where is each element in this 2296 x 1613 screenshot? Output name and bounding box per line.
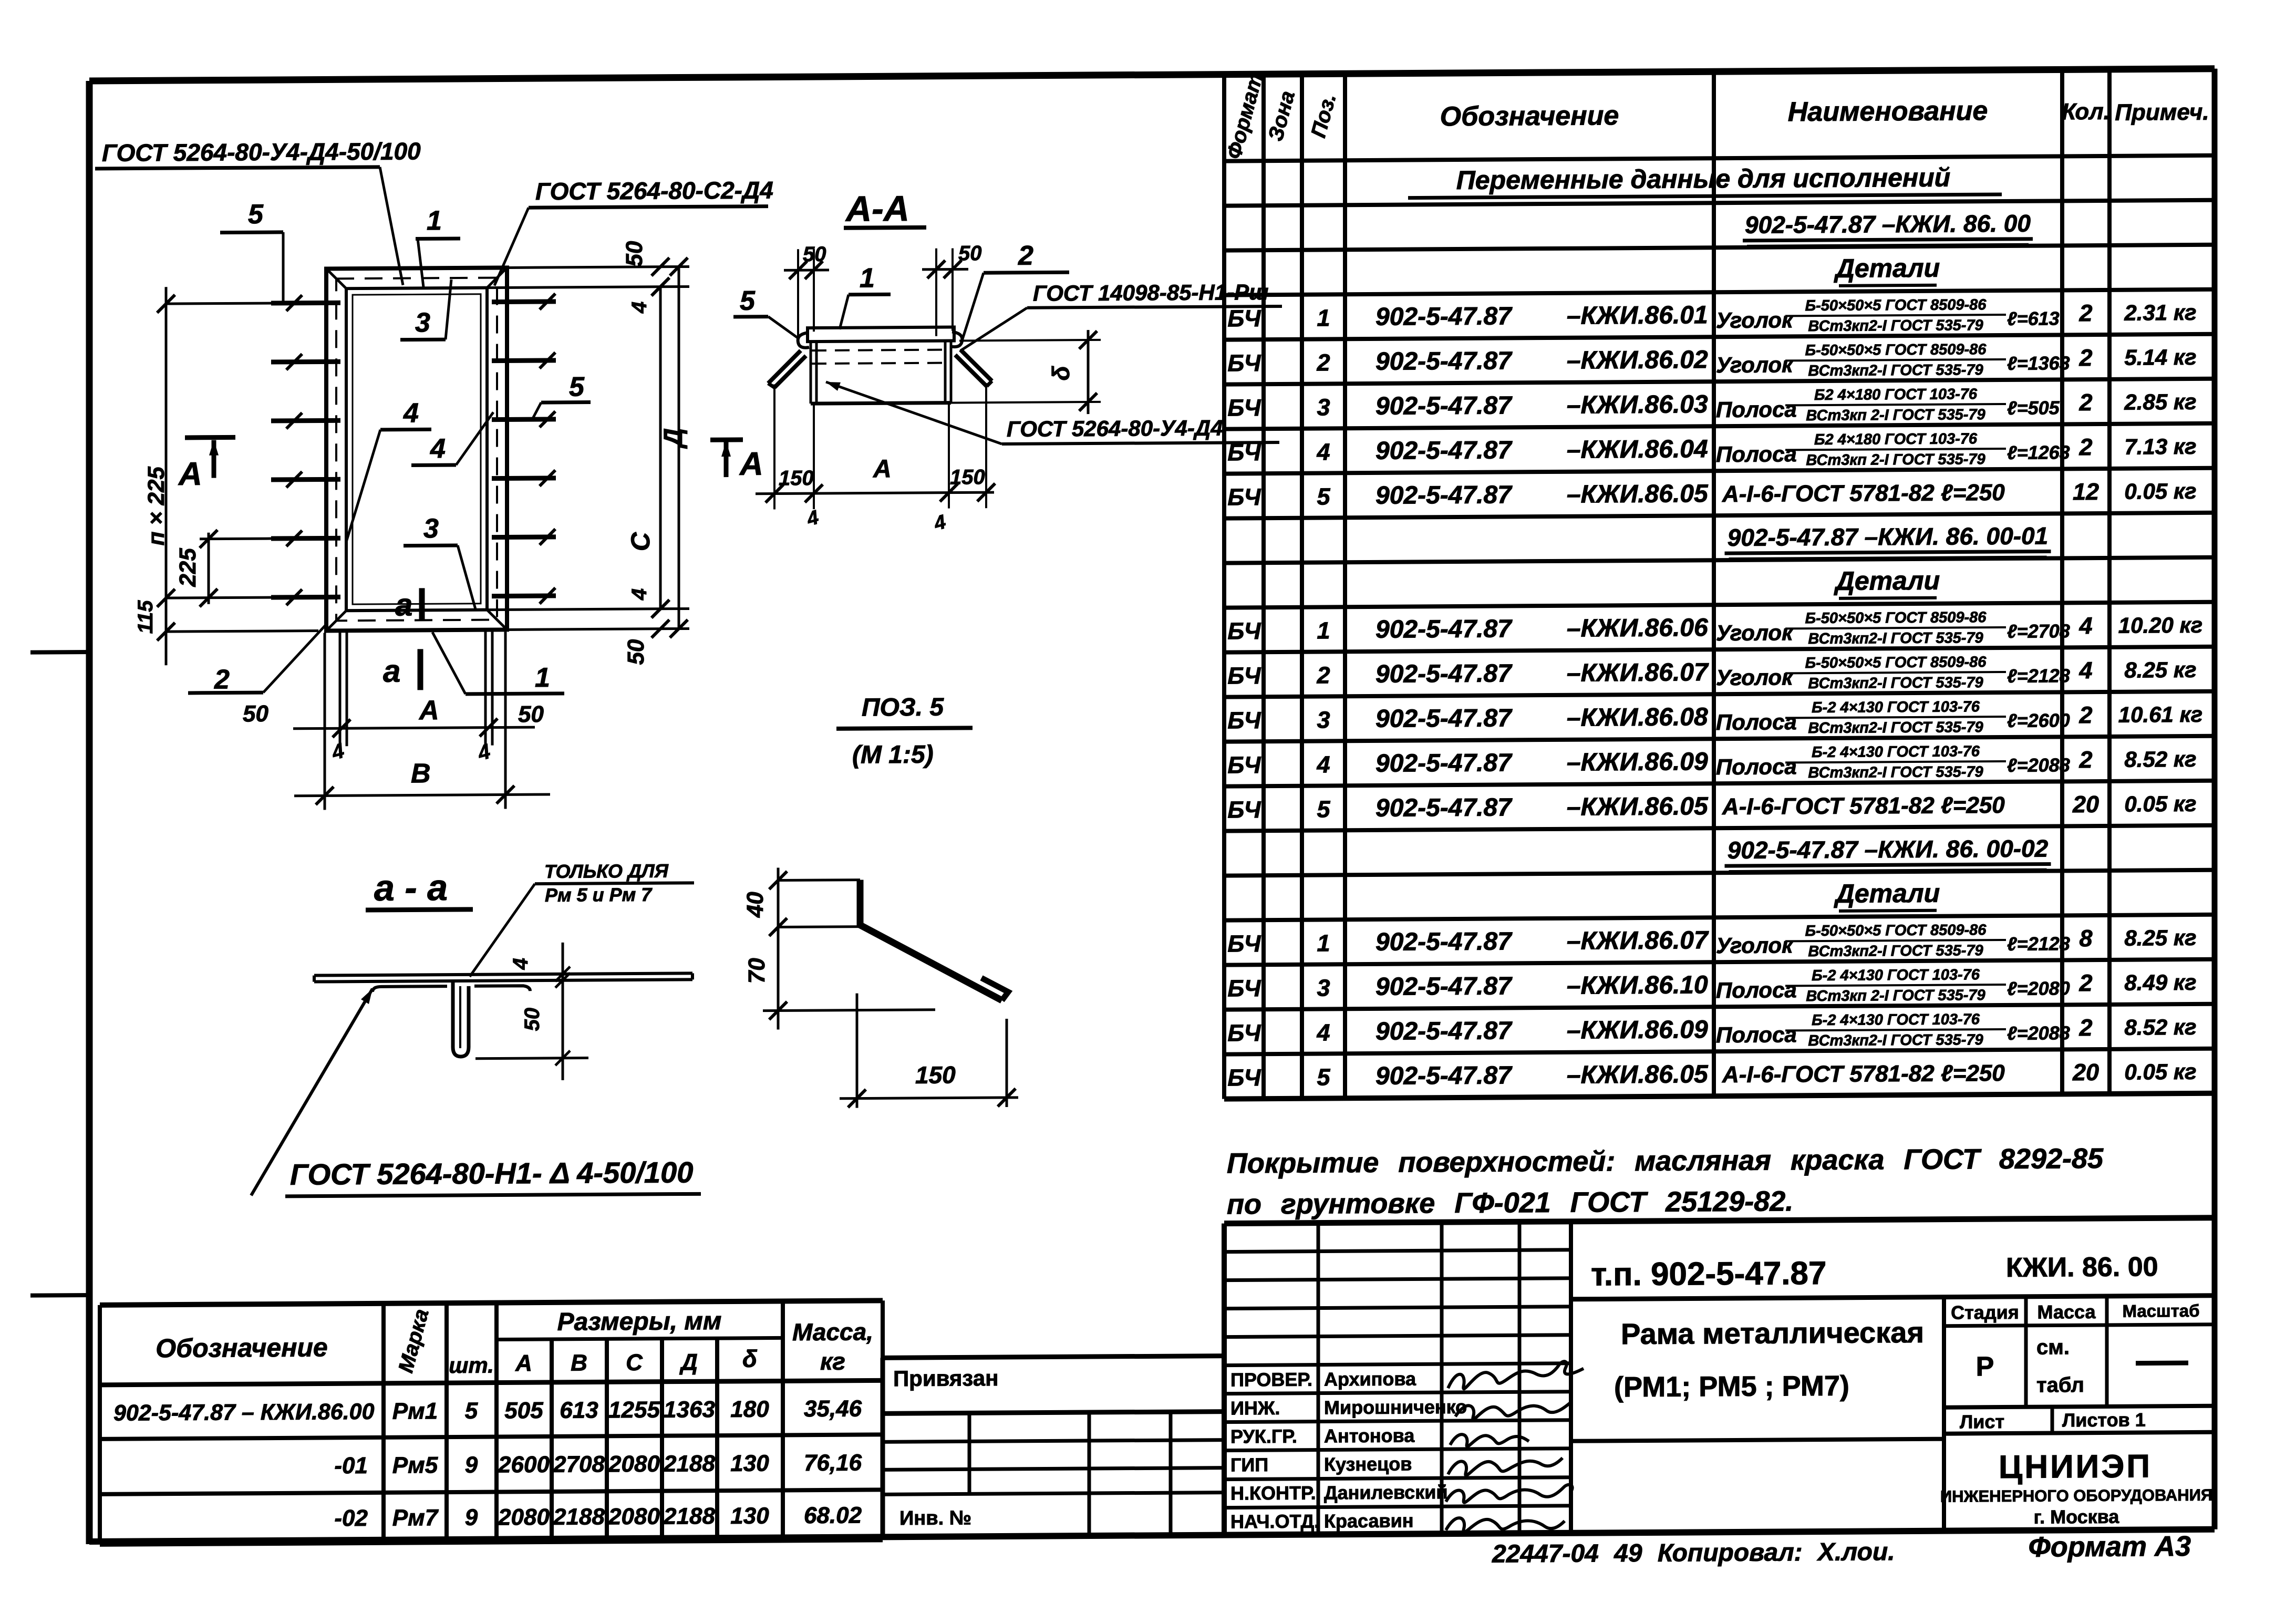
svg-text:–КЖИ.86.07: –КЖИ.86.07 [1567, 658, 1709, 687]
svg-text:115: 115 [134, 600, 157, 634]
svg-text:2188: 2188 [553, 1504, 605, 1530]
title block outer [1224, 1218, 2215, 1224]
svg-text:8.49 кг: 8.49 кг [2124, 970, 2196, 995]
svg-text:4: 4 [2078, 657, 2092, 684]
sheet border frame [89, 69, 2215, 81]
svg-text:225: 225 [175, 548, 201, 587]
svg-text:Наименование: Наименование [1788, 96, 1988, 127]
svg-text:Б2 4×180 ГОСТ 103-76: Б2 4×180 ГОСТ 103-76 [1814, 386, 1978, 404]
svg-text:35,46: 35,46 [804, 1396, 862, 1422]
svg-text:10.61 кг: 10.61 кг [2118, 702, 2202, 727]
svg-text:20: 20 [2072, 791, 2099, 818]
svg-text:8.52 кг: 8.52 кг [2124, 1015, 2196, 1040]
pos.5 bent bar [860, 879, 1002, 1001]
svg-text:ВСт3кп2-I ГОСТ 535-79: ВСт3кп2-I ГОСТ 535-79 [1808, 942, 1983, 960]
svg-text:–КЖИ.86.09: –КЖИ.86.09 [1567, 1016, 1708, 1045]
svg-text:–КЖИ.86.02: –КЖИ.86.02 [1567, 346, 1708, 375]
svg-text:4: 4 [403, 398, 419, 428]
svg-text:ПРОВЕР.: ПРОВЕР. [1230, 1369, 1312, 1391]
svg-text:а: а [395, 587, 412, 622]
svg-text:2.85 кг: 2.85 кг [2124, 389, 2196, 415]
fold mark left upper [30, 650, 89, 655]
svg-text:ℓ=505: ℓ=505 [2007, 397, 2060, 419]
svg-text:Р: Р [1976, 1351, 1994, 1382]
svg-text:Мирошниченко: Мирошниченко [1324, 1396, 1467, 1419]
svg-text:ТОЛЬКО ДЛЯ: ТОЛЬКО ДЛЯ [544, 860, 669, 882]
svg-text:902-5-47.87: 902-5-47.87 [1375, 659, 1513, 688]
svg-text:10.20 кг: 10.20 кг [2118, 613, 2202, 638]
svg-text:3: 3 [415, 307, 430, 338]
svg-text:Рм1: Рм1 [392, 1398, 438, 1424]
svg-text:Б-50×50×5 ГОСТ 8509-86: Б-50×50×5 ГОСТ 8509-86 [1805, 341, 1987, 359]
svg-text:-02: -02 [334, 1505, 368, 1531]
svg-text:8.52 кг: 8.52 кг [2124, 747, 2196, 772]
svg-text:902-5-47.87: 902-5-47.87 [1375, 347, 1513, 376]
svg-text:2188: 2188 [663, 1451, 715, 1477]
dimension 225 [208, 533, 210, 604]
A-A left web [810, 342, 812, 404]
fold mark left lower [30, 1293, 89, 1298]
svg-text:Б-50×50×5 ГОСТ 8509-86: Б-50×50×5 ГОСТ 8509-86 [1805, 296, 1987, 314]
svg-text:902-5-47.87: 902-5-47.87 [1375, 1017, 1513, 1046]
svg-text:902-5-47.87: 902-5-47.87 [1375, 793, 1513, 822]
svg-text:2080: 2080 [608, 1504, 660, 1530]
a-a dim 4 [562, 943, 564, 1080]
svg-text:22447-04 49 Копировал: Х.: 22447-04 49 Копировал: Х.лои. [1492, 1538, 1895, 1568]
svg-text:Детали: Детали [1834, 253, 1940, 283]
svg-text:–КЖИ.86.08: –КЖИ.86.08 [1567, 703, 1708, 732]
A-A bottom dims 150 A 150 [773, 385, 775, 510]
svg-text:Переменные данные для испол: Переменные данные для исполнений [1456, 163, 1950, 195]
dimension line C [659, 287, 662, 609]
svg-text:50: 50 [243, 701, 268, 727]
svg-text:ВСт3кп 2-I ГОСТ 535-79: ВСт3кп 2-I ГОСТ 535-79 [1806, 406, 1985, 424]
svg-text:А-I-6-ГОСТ 5781-82 ℓ=250: А-I-6-ГОСТ 5781-82 ℓ=250 [1722, 792, 2005, 820]
svg-text:1: 1 [1317, 304, 1330, 331]
svg-text:В: В [571, 1350, 587, 1376]
svg-text:БЧ: БЧ [1227, 707, 1261, 733]
svg-text:РУК.ГР.: РУК.ГР. [1230, 1425, 1297, 1447]
svg-text:2: 2 [1018, 241, 1033, 271]
svg-text:БЧ: БЧ [1227, 305, 1261, 332]
svg-text:5: 5 [465, 1398, 478, 1424]
svg-text:2: 2 [2078, 344, 2092, 371]
svg-text:Кол.: Кол. [2062, 99, 2110, 125]
svg-text:БЧ: БЧ [1227, 483, 1261, 510]
svg-text:2708: 2708 [553, 1451, 605, 1477]
svg-text:ВСт3кп 2-I ГОСТ 535-79: ВСт3кп 2-I ГОСТ 535-79 [1806, 451, 1985, 469]
svg-text:902-5-47.87: 902-5-47.87 [1375, 391, 1513, 420]
svg-text:2600: 2600 [498, 1452, 550, 1478]
svg-text:2: 2 [2078, 969, 2092, 996]
a-a lip shelf under plate left [373, 986, 447, 992]
svg-text:8.25 кг: 8.25 кг [2124, 657, 2196, 683]
svg-text:4: 4 [628, 302, 651, 314]
svg-text:Детали: Детали [1834, 566, 1940, 596]
svg-text:Б-50×50×5 ГОСТ 8509-86: Б-50×50×5 ГОСТ 8509-86 [1805, 609, 1987, 627]
svg-text:Кузнецов: Кузнецов [1324, 1453, 1412, 1475]
svg-text:4: 4 [628, 588, 651, 601]
svg-text:С: С [626, 1350, 643, 1376]
svg-text:130: 130 [730, 1451, 769, 1476]
svg-text:БЧ: БЧ [1227, 617, 1261, 644]
svg-text:Обозначение: Обозначение [1440, 100, 1619, 132]
svg-text:ГОСТ 5264-80-У4-Д4-50/100: ГОСТ 5264-80-У4-Д4-50/100 [102, 137, 421, 166]
A-A flange plate [808, 327, 954, 342]
svg-text:А-А: А-А [845, 189, 909, 229]
a-a lip shelf under plate right [474, 986, 530, 991]
svg-text:1: 1 [427, 205, 442, 236]
svg-text:2: 2 [2078, 746, 2092, 773]
a-a dim 50 [475, 1058, 588, 1059]
svg-text:Б-50×50×5 ГОСТ 8509-86: Б-50×50×5 ГОСТ 8509-86 [1805, 922, 1987, 939]
top right extension lines + dims 50/4 [507, 266, 689, 267]
svg-text:ВСт3кп2-I ГОСТ 535-79: ВСт3кп2-I ГОСТ 535-79 [1808, 629, 1983, 647]
svg-text:4: 4 [430, 433, 446, 464]
svg-text:БЧ: БЧ [1227, 975, 1261, 1001]
svg-text:ИНЖ.: ИНЖ. [1230, 1397, 1280, 1419]
A-A right web [944, 341, 947, 403]
svg-text:Рм 5 и Рм 7: Рм 5 и Рм 7 [545, 884, 653, 906]
svg-text:Уголок: Уголок [1716, 352, 1794, 377]
svg-text:40: 40 [742, 892, 768, 918]
svg-text:Полоса: Полоса [1716, 977, 1797, 1002]
svg-text:Б-2 4×130 ГОСТ 103-76: Б-2 4×130 ГОСТ 103-76 [1812, 1011, 1980, 1029]
svg-text:902-5-47.87 – КЖИ.86.00: 902-5-47.87 – КЖИ.86.00 [113, 1399, 375, 1426]
svg-text:БЧ: БЧ [1227, 662, 1261, 689]
svg-text:ГОСТ 5264-80-Н1- Δ 4-50/100: ГОСТ 5264-80-Н1- Δ 4-50/100 [290, 1155, 693, 1191]
svg-text:150: 150 [779, 467, 814, 490]
svg-text:3: 3 [1317, 974, 1330, 1001]
svg-text:а - а: а - а [374, 867, 448, 908]
svg-text:–КЖИ.86.01: –КЖИ.86.01 [1567, 301, 1708, 330]
svg-text:20: 20 [2072, 1059, 2099, 1085]
svg-text:4: 4 [1316, 438, 1330, 465]
svg-text:А: А [515, 1350, 532, 1376]
svg-text:ВСт3кп2-I ГОСТ 535-79: ВСт3кп2-I ГОСТ 535-79 [1808, 1031, 1983, 1049]
left anchor bars (поз.5) [271, 301, 340, 306]
svg-text:2080: 2080 [498, 1504, 550, 1531]
svg-text:12: 12 [2073, 478, 2099, 505]
svg-text:8: 8 [2079, 925, 2092, 952]
svg-text:902-5-47.87: 902-5-47.87 [1375, 704, 1513, 733]
svg-text:2: 2 [1316, 661, 1330, 688]
svg-text:902-5-47.87: 902-5-47.87 [1375, 615, 1513, 644]
frame outer rectangle (рама, вид спереди) [326, 267, 507, 630]
right leg strip [484, 630, 487, 746]
svg-text:2188: 2188 [663, 1503, 715, 1529]
svg-text:КЖИ. 86. 00: КЖИ. 86. 00 [2006, 1252, 2158, 1283]
svg-text:1: 1 [1317, 929, 1330, 956]
svg-text:4: 4 [1316, 1019, 1330, 1046]
corner mitre lines [326, 268, 346, 288]
stadia massa masshtab cells [1942, 1297, 1946, 1532]
svg-text:БЧ: БЧ [1227, 930, 1261, 957]
svg-text:А-I-6-ГОСТ 5781-82 ℓ=250: А-I-6-ГОСТ 5781-82 ℓ=250 [1722, 1060, 2005, 1088]
right anchor bars (поз.5) [492, 299, 556, 304]
svg-text:Привязан: Привязан [893, 1366, 998, 1391]
svg-text:табл: табл [2036, 1373, 2084, 1397]
svg-text:50: 50 [622, 241, 647, 267]
svg-text:Данилевский: Данилевский [1324, 1481, 1447, 1503]
A-A flange end hem left [798, 333, 809, 348]
svg-text:Б-2 4×130 ГОСТ 103-76: Б-2 4×130 ГОСТ 103-76 [1812, 966, 1980, 984]
frame inner lip rectangle [353, 294, 481, 604]
svg-text:–КЖИ.86.05: –КЖИ.86.05 [1567, 792, 1709, 821]
svg-text:902-5-47.87: 902-5-47.87 [1375, 927, 1513, 956]
svg-text:4: 4 [1316, 751, 1330, 778]
svg-text:902-5-47.87: 902-5-47.87 [1375, 972, 1513, 1001]
svg-text:ℓ=2708: ℓ=2708 [2007, 620, 2070, 642]
svg-text:т.п. 902-5-47.87: т.п. 902-5-47.87 [1591, 1255, 1826, 1293]
svg-text:ВСт3кп 2-I ГОСТ 535-79: ВСт3кп 2-I ГОСТ 535-79 [1806, 987, 1985, 1005]
svg-text:Полоса: Полоса [1716, 754, 1797, 779]
svg-text:–КЖИ.86.04: –КЖИ.86.04 [1567, 435, 1708, 464]
svg-text:150: 150 [950, 466, 985, 489]
svg-text:Уголок: Уголок [1716, 620, 1794, 645]
svg-text:5: 5 [1317, 795, 1330, 822]
svg-text:ИНЖЕНЕРНОГО ОБОРУДОВАНИЯ: ИНЖЕНЕРНОГО ОБОРУДОВАНИЯ [1940, 1486, 2212, 1506]
svg-text:0.05 кг: 0.05 кг [2124, 479, 2196, 504]
svg-text:2.31 кг: 2.31 кг [2124, 300, 2196, 325]
svg-text:Б-2 4×130 ГОСТ 103-76: Б-2 4×130 ГОСТ 103-76 [1812, 698, 1980, 716]
svg-text:50: 50 [521, 1008, 544, 1031]
svg-text:Уголок: Уголок [1716, 307, 1794, 333]
svg-text:50: 50 [518, 701, 544, 727]
frame inner rectangle [346, 288, 487, 611]
svg-text:ВСт3кп2-I ГОСТ 535-79: ВСт3кп2-I ГОСТ 535-79 [1808, 317, 1983, 335]
svg-text:Антонова: Антонова [1324, 1424, 1415, 1446]
svg-text:5: 5 [1317, 483, 1330, 510]
svg-text:5: 5 [1317, 1063, 1330, 1090]
signatures squiggles [1448, 1361, 1584, 1389]
svg-text:9: 9 [465, 1505, 478, 1531]
svg-text:76,16: 76,16 [804, 1450, 862, 1476]
svg-text:Обозначение: Обозначение [156, 1332, 328, 1363]
svg-text:БЧ: БЧ [1227, 349, 1261, 376]
svg-text:Примеч.: Примеч. [2115, 99, 2209, 126]
svg-text:Уголок: Уголок [1716, 665, 1794, 690]
left leg strip (поз.1/2 ends) [339, 630, 342, 746]
svg-text:ℓ=2080: ℓ=2080 [2007, 977, 2070, 999]
svg-text:ЦНИИЭП: ЦНИИЭП [1999, 1448, 2152, 1485]
svg-text:1: 1 [535, 663, 550, 693]
svg-text:ВСт3кп2-I ГОСТ 535-79: ВСт3кп2-I ГОСТ 535-79 [1808, 674, 1983, 692]
svg-text:2: 2 [2078, 389, 2092, 416]
svg-text:А-I-6-ГОСТ 5781-82 ℓ=250: А-I-6-ГОСТ 5781-82 ℓ=250 [1722, 480, 2005, 507]
svg-text:902-5-47.87 –КЖИ. 86. 00: 902-5-47.87 –КЖИ. 86. 00 [1745, 210, 2031, 239]
svg-text:902-5-47.87: 902-5-47.87 [1375, 749, 1513, 778]
svg-text:C: C [626, 532, 655, 551]
svg-text:ℓ=613: ℓ=613 [2007, 307, 2060, 329]
svg-text:ℓ=2128: ℓ=2128 [2007, 665, 2070, 687]
svg-text:(РМ1; РМ5 ; РМ7): (РМ1; РМ5 ; РМ7) [1614, 1370, 1849, 1403]
A-A right anchor bar [960, 349, 992, 381]
svg-text:902-5-47.87: 902-5-47.87 [1375, 436, 1513, 465]
svg-text:50: 50 [623, 639, 649, 665]
svg-text:ГОСТ 5264-80-С2-Д4: ГОСТ 5264-80-С2-Д4 [535, 177, 773, 205]
svg-text:Полоса: Полоса [1716, 397, 1797, 422]
svg-text:Д: Д [679, 1349, 698, 1375]
svg-text:Д: Д [658, 428, 688, 449]
svg-text:БЧ: БЧ [1227, 394, 1261, 421]
svg-text:Полоса: Полоса [1716, 709, 1797, 735]
svg-text:1: 1 [860, 263, 875, 293]
svg-text:Стадия: Стадия [1951, 1301, 2019, 1324]
svg-text:БЧ: БЧ [1227, 1019, 1261, 1046]
svg-text:шт.: шт. [449, 1353, 494, 1378]
svg-text:кг: кг [820, 1348, 845, 1375]
svg-text:Красавин: Красавин [1324, 1510, 1413, 1532]
svg-text:ℓ=1263: ℓ=1263 [2007, 441, 2070, 463]
svg-text:Б2 4×180 ГОСТ 103-76: Б2 4×180 ГОСТ 103-76 [1814, 430, 1978, 448]
svg-text:150: 150 [915, 1061, 956, 1089]
svg-text:см.: см. [2036, 1336, 2070, 1359]
svg-text:–КЖИ.86.05: –КЖИ.86.05 [1567, 480, 1709, 509]
svg-text:ВСт3кп2-I ГОСТ 535-79: ВСт3кп2-I ГОСТ 535-79 [1808, 361, 1983, 379]
svg-text:Масштаб: Масштаб [2122, 1301, 2199, 1321]
svg-text:ℓ=2088: ℓ=2088 [2007, 1022, 2070, 1044]
size table grid [100, 1300, 883, 1305]
a-a T stem (folded strip) [453, 981, 469, 1057]
svg-text:ℓ=2128: ℓ=2128 [2007, 933, 2070, 955]
svg-text:–КЖИ.86.06: –КЖИ.86.06 [1567, 614, 1708, 643]
svg-text:А: А [178, 456, 202, 492]
svg-text:В: В [411, 758, 431, 789]
svg-text:2080: 2080 [608, 1451, 660, 1477]
svg-text:Лист: Лист [1960, 1411, 2004, 1432]
svg-text:Инв. №: Инв. № [899, 1507, 971, 1529]
svg-text:2: 2 [1316, 349, 1330, 376]
svg-text:БЧ: БЧ [1227, 751, 1261, 778]
svg-text:5.14 кг: 5.14 кг [2124, 345, 2196, 370]
dimension line A bottom [293, 727, 535, 729]
svg-text:2: 2 [2078, 299, 2092, 326]
A-A dim delta [959, 340, 1101, 341]
svg-text:БЧ: БЧ [1227, 1064, 1261, 1091]
svg-text:–КЖИ.86.05: –КЖИ.86.05 [1567, 1060, 1709, 1089]
svg-text:Уголок: Уголок [1716, 933, 1794, 958]
svg-text:Масса: Масса [2038, 1301, 2096, 1323]
svg-text:А: А [739, 446, 763, 482]
svg-text:505: 505 [504, 1398, 543, 1423]
privyazan block grid [883, 1356, 1224, 1358]
frame wall hidden dashed rectangle [336, 278, 497, 621]
svg-text:по грунтовке ГФ-021 ГОСТ 25: по грунтовке ГФ-021 ГОСТ 25129-82. [1227, 1185, 1793, 1220]
svg-text:902-5-47.87: 902-5-47.87 [1375, 1061, 1513, 1090]
svg-text:А: А [873, 455, 892, 483]
svg-text:902-5-47.87: 902-5-47.87 [1375, 302, 1513, 331]
svg-text:–КЖИ.86.10: –КЖИ.86.10 [1567, 971, 1708, 1000]
svg-text:902-5-47.87 –КЖИ. 86. 00-02: 902-5-47.87 –КЖИ. 86. 00-02 [1728, 835, 2049, 864]
svg-text:–КЖИ.86.07: –КЖИ.86.07 [1567, 926, 1709, 955]
svg-text:3: 3 [1317, 706, 1330, 733]
svg-text:1: 1 [1317, 617, 1330, 644]
svg-text:НАЧ.ОТД.: НАЧ.ОТД. [1230, 1511, 1319, 1533]
A-A hidden dashed lines [812, 350, 950, 351]
svg-text:ℓ=1363: ℓ=1363 [2007, 352, 2070, 374]
svg-text:Детали: Детали [1834, 878, 1940, 908]
list / listov row [1944, 1432, 2215, 1434]
a-a horizontal plate [314, 973, 692, 975]
svg-text:п × 225: п × 225 [143, 466, 169, 545]
svg-text:5: 5 [248, 199, 264, 230]
svg-text:Рм7: Рм7 [392, 1505, 439, 1531]
svg-text:(М 1:5): (М 1:5) [852, 741, 934, 769]
svg-text:Листов 1: Листов 1 [2062, 1409, 2146, 1431]
svg-text:4: 4 [2078, 612, 2092, 639]
svg-text:7.13 кг: 7.13 кг [2124, 434, 2196, 459]
svg-text:2: 2 [214, 664, 230, 695]
svg-text:ПОЗ. 5: ПОЗ. 5 [862, 694, 944, 722]
svg-text:2: 2 [2078, 701, 2092, 728]
svg-text:2: 2 [2078, 433, 2092, 460]
svg-text:Покрытие поверхностей: масля: Покрытие поверхностей: масляная краска Г… [1227, 1143, 2104, 1180]
svg-text:Архипова: Архипова [1324, 1368, 1416, 1390]
svg-text:8.25 кг: 8.25 кг [2124, 925, 2196, 950]
svg-text:Рама металлическая: Рама металлическая [1621, 1316, 1924, 1350]
svg-text:130: 130 [730, 1503, 769, 1529]
svg-text:БЧ: БЧ [1227, 439, 1261, 466]
svg-text:Полоса: Полоса [1716, 441, 1797, 467]
svg-text:1363: 1363 [664, 1397, 715, 1423]
svg-text:ГИП: ГИП [1230, 1454, 1268, 1475]
svg-text:Б-2 4×130 ГОСТ 103-76: Б-2 4×130 ГОСТ 103-76 [1812, 743, 1980, 761]
svg-text:3: 3 [1317, 394, 1330, 420]
svg-text:г. Москва: г. Москва [2034, 1506, 2120, 1528]
specification table grid [1224, 69, 2215, 75]
svg-text:4: 4 [509, 958, 532, 970]
svg-text:ГОСТ 5264-80-У4-Д4: ГОСТ 5264-80-У4-Д4 [1007, 416, 1223, 441]
svg-text:68.02: 68.02 [804, 1503, 862, 1529]
svg-text:Размеры, мм: Размеры, мм [557, 1307, 722, 1336]
svg-text:613: 613 [560, 1397, 598, 1423]
svg-text:0.05 кг: 0.05 кг [2124, 1059, 2196, 1084]
svg-text:ℓ=2088: ℓ=2088 [2007, 754, 2070, 776]
svg-text:70: 70 [744, 958, 770, 984]
dimension line B bottom [294, 794, 550, 796]
svg-text:–КЖИ.86.03: –КЖИ.86.03 [1567, 390, 1708, 419]
svg-text:Б-50×50×5 ГОСТ 8509-86: Б-50×50×5 ГОСТ 8509-86 [1805, 654, 1987, 671]
A-A left anchor bar [768, 350, 801, 383]
svg-text:902-5-47.87 –КЖИ. 86. 00-01: 902-5-47.87 –КЖИ. 86. 00-01 [1728, 522, 2048, 552]
svg-text:ГОСТ 14098-85-Н1-Рш: ГОСТ 14098-85-Н1-Рш [1033, 280, 1268, 306]
svg-text:ℓ=2600: ℓ=2600 [2007, 709, 2070, 731]
vertical dimension line n x 225 [165, 287, 168, 665]
svg-text:ВСт3кп2-I ГОСТ 535-79: ВСт3кп2-I ГОСТ 535-79 [1808, 763, 1983, 781]
svg-text:БЧ: БЧ [1227, 796, 1261, 823]
A-A channel bottom face [811, 403, 951, 404]
pos.5 dims 40/70 [777, 867, 780, 1029]
svg-text:–КЖИ.86.09: –КЖИ.86.09 [1567, 748, 1708, 777]
svg-text:Н.КОНТР.: Н.КОНТР. [1230, 1482, 1316, 1504]
svg-text:Полоса: Полоса [1716, 1022, 1797, 1047]
svg-text:5: 5 [569, 372, 585, 402]
svg-text:Масса,: Масса, [792, 1318, 873, 1346]
svg-text:902-5-47.87: 902-5-47.87 [1375, 481, 1513, 510]
svg-text:5: 5 [740, 286, 756, 316]
svg-text:2: 2 [2078, 1014, 2092, 1041]
svg-text:180: 180 [730, 1397, 769, 1422]
svg-text:Рм5: Рм5 [392, 1452, 438, 1478]
bottom right extension lines + dims 4/50 [487, 608, 689, 609]
svg-text:0.05 кг: 0.05 кг [2124, 791, 2196, 816]
svg-text:1255: 1255 [608, 1397, 660, 1423]
A-A flange end hem right [951, 332, 962, 347]
svg-text:δ: δ [1047, 365, 1074, 380]
pos.5 dim 150 [856, 994, 859, 1108]
svg-text:-01: -01 [334, 1453, 368, 1478]
